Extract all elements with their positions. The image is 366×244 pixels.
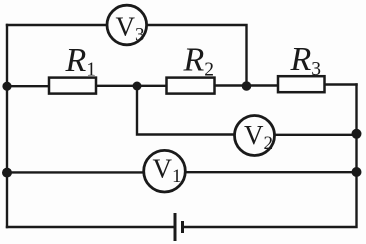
resistor R2 bbox=[167, 78, 215, 94]
resistor R3 bbox=[278, 76, 325, 92]
wire node C down and across to V2 left terminal bbox=[137, 86, 235, 135]
junction node D (left, V1 row) bbox=[2, 168, 12, 178]
junction node F (right rail, V1 row) bbox=[352, 167, 362, 177]
wire V2 right terminal to right rail node E bbox=[275, 134, 357, 136]
voltmeter V1 bbox=[144, 150, 186, 192]
junction node C (between R1 and R2) bbox=[133, 82, 142, 91]
wire bottom right and right vertical rail bbox=[184, 85, 357, 228]
resistor R1 bbox=[49, 78, 96, 94]
junction node A (left, resistor row) bbox=[2, 82, 11, 91]
wire top: node A corner to V3 left terminal bbox=[7, 24, 107, 26]
wire R1 to R2 through node C bbox=[96, 85, 167, 87]
wire V1 right terminal to right rail node F bbox=[185, 171, 357, 173]
wire left vertical rail bbox=[6, 25, 8, 227]
voltmeter V3 bbox=[107, 5, 147, 45]
junction node B (between R2 and R3, V3 drop) bbox=[242, 81, 252, 91]
wire node D to V1 left terminal bbox=[7, 171, 144, 173]
voltmeter V2 bbox=[235, 116, 275, 156]
wire node A to R1 left terminal bbox=[7, 85, 49, 87]
battery: long (positive) plate bbox=[174, 213, 177, 241]
battery: short (negative) plate bbox=[181, 221, 184, 233]
wire top: V3 right terminal to drop into node B bbox=[147, 25, 247, 85]
wire bottom left: corner to battery positive plate bbox=[7, 226, 173, 228]
junction node E (right rail, V2 row) bbox=[352, 129, 362, 139]
wire R2 to R3 through node B bbox=[214, 84, 279, 86]
wire R3 right terminal to right rail bbox=[325, 83, 357, 85]
